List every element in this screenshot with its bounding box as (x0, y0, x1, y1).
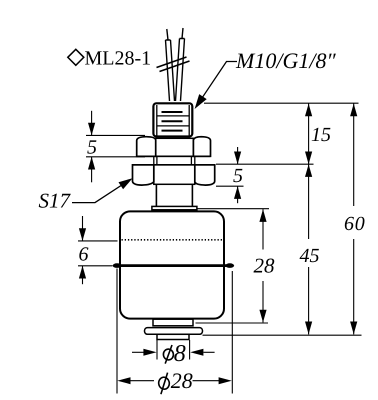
dimension 6 (78, 216, 118, 284)
wire 2 (right lead) (176, 28, 185, 101)
svg-text:45: 45 (300, 245, 320, 267)
float body (120, 211, 224, 318)
svg-text:5: 5 (87, 136, 97, 158)
dimension 15 (305, 103, 331, 164)
svg-text:15: 15 (311, 124, 331, 146)
svg-text:M10/G1/8″: M10/G1/8″ (235, 48, 336, 73)
hex nut N2 (lower, S17) (133, 165, 215, 185)
svg-text:28: 28 (171, 368, 193, 393)
svg-text:ML28-1: ML28-1 (85, 48, 152, 70)
extension line: collar level (198, 208, 270, 210)
svg-text:60: 60 (344, 213, 366, 235)
svg-text:5: 5 (233, 165, 243, 187)
extension line: nut top right (216, 163, 314, 165)
label ML28-1 (68, 48, 151, 70)
dimension 28 (254, 209, 276, 322)
threaded stem between nuts (154, 157, 195, 165)
dimension 5 (left) (86, 111, 145, 183)
bottom boss disc C (157, 334, 189, 339)
dimension phi8 (132, 340, 215, 367)
collar above float (152, 206, 197, 209)
bottom boss disc A (153, 319, 193, 326)
band (widest ring) (115, 264, 232, 267)
bottom boss disc B (145, 328, 203, 335)
svg-text:28: 28 (254, 254, 276, 278)
dimension phi28 (117, 269, 232, 395)
label S17 with leader (39, 178, 133, 212)
extension line: boss bottom level (203, 334, 362, 336)
water line (dotted) (122, 239, 224, 241)
wire 1 (left lead) (166, 29, 175, 101)
cable gland body (153, 103, 192, 136)
dimension 5 (right) (233, 147, 243, 203)
dimension 60 (344, 103, 366, 334)
hex nut N1 (upper) (137, 137, 211, 157)
svg-text:S17: S17 (39, 189, 72, 213)
svg-text:8: 8 (174, 341, 186, 367)
dimension 45 (300, 164, 320, 334)
extension line: right 5 bottom (216, 185, 244, 187)
wire break mark (157, 57, 190, 72)
label M10/G1/8" with leader (195, 48, 337, 109)
extension line: top reference (204, 102, 359, 104)
stem below nut (156, 185, 192, 207)
extension line: float bottom level (196, 322, 269, 324)
svg-text:6: 6 (79, 243, 89, 265)
